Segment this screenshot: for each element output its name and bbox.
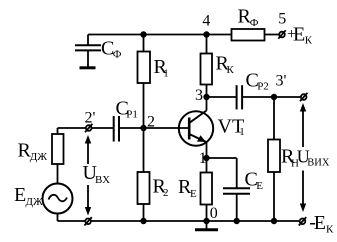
wire collector to node 3 <box>206 97 208 111</box>
ground (node 0) <box>195 221 218 230</box>
resistor R1 <box>138 52 151 84</box>
label RΦ <box>238 6 259 29</box>
svg-text:Ф: Ф <box>250 17 259 29</box>
terminal -EK <box>299 217 306 225</box>
wire node1 to CE <box>207 157 237 159</box>
wire R1 column top <box>143 35 145 52</box>
svg-text:К: К <box>227 64 235 76</box>
node R2 bottom junction <box>140 218 146 224</box>
wire R1 bottom to node 2 <box>143 83 145 128</box>
label RДЖ <box>18 140 48 164</box>
label 4 <box>202 13 210 30</box>
label RН <box>281 145 299 169</box>
label 3' <box>276 72 287 89</box>
label EДЖ <box>14 184 43 208</box>
terminal 0' <box>84 217 91 225</box>
svg-text:Е: Е <box>14 184 26 206</box>
svg-text:1: 1 <box>163 68 169 80</box>
label 0 <box>210 205 218 222</box>
label RE <box>178 176 197 200</box>
svg-text:1: 1 <box>239 126 245 138</box>
svg-text:К: К <box>305 35 313 47</box>
node 2 <box>140 125 146 131</box>
resistor R2 <box>138 128 150 221</box>
label VT1 <box>218 115 245 138</box>
ground (CΦ chassis bar) <box>80 66 96 69</box>
UВХ arrow down <box>85 185 91 216</box>
svg-text:Р2: Р2 <box>257 81 269 93</box>
label -EK <box>309 211 334 235</box>
svg-text:Е: Е <box>293 24 305 46</box>
node 0 <box>203 218 209 224</box>
node 3 <box>203 94 209 100</box>
svg-text:3: 3 <box>195 87 203 104</box>
svg-text:Е: Е <box>190 188 197 200</box>
svg-text:Р1: Р1 <box>126 109 138 121</box>
resistor RН (load) <box>268 97 280 221</box>
svg-text:2: 2 <box>147 113 155 130</box>
svg-text:0: 0 <box>210 205 218 222</box>
wire emitter to node 1 <box>206 142 208 158</box>
node 3' <box>271 94 277 100</box>
svg-text:Ф: Ф <box>113 49 122 61</box>
wire CP1 to base <box>119 127 189 129</box>
UВИХ arrow up <box>300 103 306 147</box>
label CE <box>245 169 264 193</box>
label UВХ <box>83 162 111 186</box>
svg-text:ДЖ: ДЖ <box>26 196 44 208</box>
svg-text:2': 2' <box>85 109 96 126</box>
capacitor CP1 <box>114 116 119 142</box>
label 3 <box>195 87 203 104</box>
terminal 5 (+EK) <box>278 30 285 38</box>
label R2 <box>153 176 169 200</box>
capacitor CΦ <box>75 35 101 68</box>
svg-text:2: 2 <box>163 187 169 199</box>
label 2 <box>147 113 155 130</box>
svg-text:Е: Е <box>314 212 326 234</box>
wire RK column top <box>206 35 208 54</box>
svg-text:ВХ: ВХ <box>95 174 110 186</box>
wire node3 to CP2 <box>207 96 237 98</box>
svg-text:5: 5 <box>278 10 286 27</box>
UВХ arrow up <box>85 135 91 164</box>
svg-text:Е: Е <box>256 180 263 192</box>
terminal output top <box>300 93 307 101</box>
capacitor CP2 <box>237 85 243 109</box>
label R1 <box>154 56 169 80</box>
label 2' <box>85 109 96 126</box>
label UВИХ <box>297 146 330 168</box>
source EДЖ <box>43 184 73 222</box>
label RK <box>216 53 235 77</box>
node 1 <box>203 155 209 161</box>
node 4 <box>203 31 209 37</box>
svg-text:3': 3' <box>276 72 287 89</box>
node RН bottom junction <box>271 218 277 224</box>
terminal 2' <box>85 124 92 132</box>
resistor RДЖ <box>52 128 64 184</box>
label 1 <box>199 150 207 167</box>
resistor RK <box>201 54 213 85</box>
svg-text:К: К <box>326 224 334 236</box>
svg-text:4: 4 <box>202 13 210 30</box>
svg-text:ВИХ: ВИХ <box>307 158 330 169</box>
resistor RΦ <box>232 29 265 41</box>
transistor VT1 <box>179 111 213 146</box>
label CP1 <box>116 98 138 121</box>
wire input rail (2' to CP1) <box>58 127 114 129</box>
wire bottom rail <box>58 220 300 222</box>
wire RΦ to terminal 5 <box>265 34 280 36</box>
svg-text:ДЖ: ДЖ <box>30 151 48 163</box>
UВИХ arrow down <box>300 171 306 213</box>
capacitor CE <box>223 158 250 221</box>
wire CP2 to output terminal <box>242 96 301 98</box>
wire top rail from CΦ to RΦ <box>88 34 232 36</box>
resistor RE <box>201 158 213 221</box>
node R1 top junction <box>140 31 146 37</box>
label 5 <box>278 10 286 27</box>
wire RK bottom to node 3 <box>206 85 208 98</box>
label CP2 <box>246 70 269 93</box>
node CE bottom junction <box>234 218 240 224</box>
label +EK <box>287 24 313 47</box>
label CΦ <box>101 38 122 61</box>
